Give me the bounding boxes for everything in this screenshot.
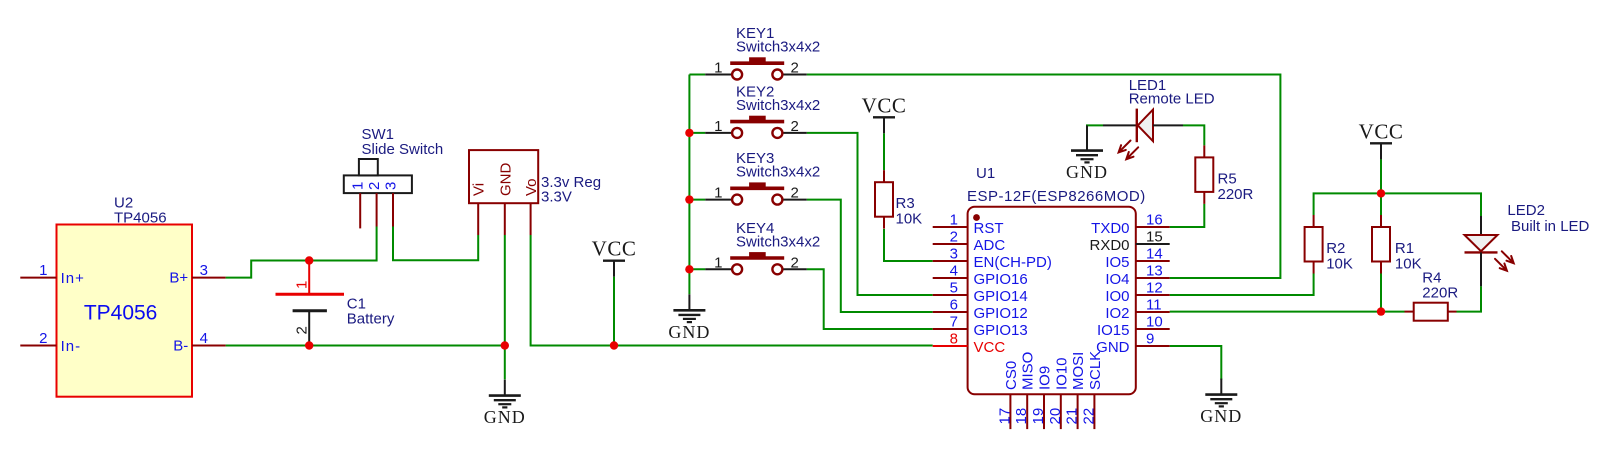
U1 pin 22 SCLK [1080, 351, 1104, 429]
svg-text:VCC: VCC [592, 237, 637, 261]
U2 pin 3 B+ [169, 262, 225, 287]
svg-text:In-: In- [61, 338, 82, 355]
wire keys common left vertical to GND [688, 75, 690, 295]
wire ESP IO2 (pin 11) to R4 left [1170, 311, 1405, 313]
switch KEY2 [705, 83, 820, 137]
svg-text:5: 5 [950, 280, 958, 297]
SW1 label [362, 126, 444, 158]
svg-text:10: 10 [1146, 314, 1163, 331]
svg-text:MISO: MISO [1020, 352, 1037, 390]
resistor R1 10K [1372, 215, 1422, 274]
U1 pin 18 MISO [1013, 352, 1037, 429]
switch KEY3 [705, 150, 820, 205]
wire VCC symbol to junction [1380, 159, 1382, 215]
svg-text:16: 16 [1146, 212, 1163, 229]
svg-text:In+: In+ [61, 270, 85, 287]
svg-text:TXD0: TXD0 [1091, 220, 1129, 237]
svg-text:1: 1 [39, 262, 47, 279]
junction B- ground [501, 341, 509, 349]
wire stub KEY3 pin1 [689, 199, 705, 201]
U2 pin 4 B- [173, 330, 225, 355]
wire R4 right to LED2 cathode [1457, 286, 1482, 311]
svg-text:Slide Switch: Slide Switch [362, 141, 444, 158]
wire KEY3 pin2 to ESP GPIO12 (pin 6) [807, 200, 933, 312]
svg-text:Switch3x4x2: Switch3x4x2 [736, 39, 820, 56]
U1 pin 6 GPIO12 [933, 297, 1028, 323]
svg-text:EN(CH-PD): EN(CH-PD) [974, 254, 1052, 271]
svg-text:1: 1 [714, 60, 722, 77]
svg-text:Vi: Vi [471, 183, 488, 196]
svg-text:Switch3x4x2: Switch3x4x2 [736, 164, 820, 181]
switch KEY4 [705, 220, 820, 274]
LED2 label [1507, 202, 1589, 235]
svg-text:2: 2 [950, 229, 958, 246]
U1 pin 1 RST [933, 212, 1004, 238]
svg-text:IO0: IO0 [1105, 288, 1129, 305]
svg-text:GND: GND [668, 322, 710, 342]
U1 pin 3 EN(CH-PD) [933, 246, 1052, 272]
U1 pin 15 RXD0 [1089, 229, 1169, 255]
svg-text:4: 4 [200, 330, 208, 347]
SW1 pin 2 [366, 182, 383, 227]
svg-text:2: 2 [791, 118, 799, 135]
svg-text:Vo: Vo [523, 178, 540, 196]
svg-text:Switch3x4x2: Switch3x4x2 [736, 233, 820, 250]
regulator pin Vo [523, 178, 540, 235]
wire stub KEY4 pin1 [689, 268, 705, 270]
junction battery bottom [305, 341, 313, 349]
svg-text:CS0: CS0 [1003, 361, 1020, 390]
svg-text:IO5: IO5 [1105, 254, 1129, 271]
wire VCC to R3 top [883, 133, 885, 170]
svg-text:19: 19 [1030, 408, 1047, 425]
svg-text:R3: R3 [896, 195, 915, 212]
svg-text:MOSI: MOSI [1070, 352, 1087, 390]
svg-text:2: 2 [791, 254, 799, 271]
resistor R3 10K [875, 170, 922, 229]
regulator pin GND [497, 163, 514, 236]
junction battery top [305, 256, 313, 264]
U1 pin 4 GPIO16 [933, 263, 1028, 289]
wire regulator GND pin down to ground [504, 235, 506, 379]
svg-text:220R: 220R [1218, 186, 1254, 203]
power flag VCC above R3 [862, 93, 907, 133]
svg-text:1: 1 [714, 254, 722, 271]
U1 pin 16 TXD0 [1091, 212, 1170, 238]
svg-text:Built in LED: Built in LED [1511, 218, 1590, 235]
wire R1 bottom to IO2 net [1380, 274, 1382, 312]
U1 pin 21 MOSI [1064, 352, 1088, 429]
svg-text:LED2: LED2 [1507, 202, 1545, 219]
junction R1 bottom IO2 net [1377, 307, 1385, 315]
LED LED2 Built in LED [1465, 216, 1514, 286]
wire stub KEY2 pin1 [689, 132, 705, 134]
switch SW1 body [344, 159, 412, 193]
LED1 label [1129, 77, 1215, 108]
svg-text:GPIO12: GPIO12 [974, 305, 1028, 322]
svg-text:RST: RST [974, 220, 1004, 237]
svg-text:3: 3 [950, 246, 958, 263]
C1 label [347, 295, 395, 327]
junction VCC right rail [1377, 189, 1385, 197]
ground at ESP pin 9 [1200, 379, 1242, 427]
U1 pin 14 IO5 [1105, 246, 1169, 272]
capacitor C1 battery positive plate [276, 261, 345, 295]
svg-text:4: 4 [950, 263, 958, 280]
svg-text:B+: B+ [169, 270, 188, 287]
svg-text:1: 1 [950, 212, 958, 229]
U1 pin 12 IO0 [1105, 280, 1169, 306]
svg-text:VCC: VCC [1359, 119, 1404, 143]
capacitor C1 battery negative plate [293, 311, 327, 346]
regulator pin Vi [471, 183, 488, 235]
power flag VCC mid rail [592, 237, 637, 277]
U1 pin 19 IO9 [1030, 366, 1054, 429]
wire KEY1 pin2 to ESP IO4 (pin 13) [807, 75, 1281, 279]
svg-text:SCLK: SCLK [1087, 351, 1104, 390]
U1 pin 13 IO4 [1105, 263, 1169, 289]
svg-text:VCC: VCC [862, 93, 907, 117]
U1 pin 2 ADC [933, 229, 1006, 255]
IC U2 TP4056 body [57, 225, 193, 397]
svg-text:1: 1 [714, 185, 722, 202]
svg-text:18: 18 [1013, 408, 1030, 425]
svg-text:20: 20 [1047, 408, 1064, 425]
LED LED1 Remote LED [1103, 109, 1183, 160]
svg-text:10K: 10K [1395, 256, 1422, 273]
svg-text:15: 15 [1146, 229, 1163, 246]
switch KEY1 [705, 25, 820, 80]
junction VCC rail [610, 341, 618, 349]
wire R3 bottom to ESP EN(CH-PD) (pin 3) [884, 229, 933, 261]
resistor R4 220R [1405, 269, 1459, 320]
U2 pin 2 In- [20, 330, 81, 355]
svg-text:VCC: VCC [974, 339, 1006, 356]
svg-text:14: 14 [1146, 246, 1163, 263]
svg-text:10K: 10K [1326, 256, 1353, 273]
svg-text:Switch3x4x2: Switch3x4x2 [736, 97, 820, 114]
svg-text:ADC: ADC [974, 237, 1006, 254]
wire KEY4 pin2 to ESP GPIO13 (pin 7) [807, 269, 933, 329]
SW1 pin 1 [350, 182, 367, 229]
ground at LED1 [1066, 125, 1108, 182]
junction KEY2 pin1 [685, 129, 693, 137]
svg-text:9: 9 [1146, 331, 1154, 348]
U1 pin 17 CS0 [996, 361, 1020, 429]
U1 pin 20 IO10 [1047, 357, 1071, 429]
wire battery junction to SW1 pin 2 [309, 227, 376, 261]
U1 pin 5 GPIO14 [933, 280, 1028, 306]
regulator U3 3.3v body [469, 150, 538, 203]
svg-text:Battery: Battery [347, 310, 395, 327]
svg-text:8: 8 [950, 331, 958, 348]
ground under keys [668, 294, 710, 342]
resistor R5 220R [1195, 145, 1253, 204]
IC U1 ESP-12F body [968, 207, 1136, 394]
svg-text:6: 6 [950, 297, 958, 314]
svg-text:2: 2 [294, 326, 311, 334]
wire stub KEY1 pin1 [689, 74, 705, 76]
svg-text:R1: R1 [1395, 240, 1414, 257]
svg-text:GND: GND [497, 163, 514, 197]
U1 pin 7 GPIO13 [933, 314, 1028, 340]
wire ESP GND (pin 9) to ground [1170, 346, 1222, 380]
svg-text:GPIO16: GPIO16 [974, 271, 1028, 288]
svg-text:2: 2 [366, 182, 383, 190]
svg-text:R5: R5 [1218, 170, 1237, 187]
wire LED1 cathode to GND [1087, 125, 1103, 136]
svg-text:ESP-12F(ESP8266MOD): ESP-12F(ESP8266MOD) [967, 188, 1146, 205]
U1 pin 11 IO2 [1105, 297, 1169, 323]
wire regulator Vo to VCC rail / ESP pin 8 [531, 235, 933, 346]
wire SW1 pin 3 to regulator Vi [393, 227, 478, 261]
U1 pin 10 IO15 [1097, 314, 1170, 340]
svg-text:2: 2 [39, 330, 47, 347]
svg-text:22: 22 [1080, 408, 1097, 425]
U1 pin 9 GND [1096, 331, 1170, 357]
svg-text:3: 3 [200, 262, 208, 279]
svg-text:B-: B- [173, 338, 188, 355]
svg-text:TP4056: TP4056 [114, 209, 167, 226]
ground under regulator [484, 380, 526, 428]
svg-text:GND: GND [1200, 406, 1242, 426]
svg-text:10K: 10K [896, 211, 923, 228]
svg-text:Remote LED: Remote LED [1129, 91, 1215, 108]
svg-text:GND: GND [484, 407, 526, 427]
svg-text:TP4056: TP4056 [84, 302, 158, 325]
svg-text:GPIO14: GPIO14 [974, 288, 1028, 305]
resistor R2 10K [1305, 215, 1353, 274]
U1 label [967, 165, 1146, 205]
svg-text:GND: GND [1066, 162, 1108, 182]
wire B- to ground junction [226, 345, 505, 347]
svg-text:U1: U1 [976, 165, 995, 182]
U2 label [114, 194, 167, 226]
svg-text:220R: 220R [1422, 285, 1458, 302]
junction KEY4 pin1 [685, 265, 693, 273]
svg-text:GPIO13: GPIO13 [974, 322, 1028, 339]
svg-text:3.3V: 3.3V [541, 189, 572, 206]
SW1 pin 3 [382, 182, 399, 227]
svg-text:IO2: IO2 [1105, 305, 1129, 322]
svg-text:IO15: IO15 [1097, 322, 1130, 339]
wire KEY2 pin2 to ESP GPIO14 (pin 5) [807, 133, 933, 295]
svg-text:11: 11 [1146, 297, 1162, 314]
svg-text:R2: R2 [1326, 240, 1345, 257]
U1 pin 8 VCC [933, 331, 1006, 357]
svg-text:3: 3 [382, 182, 399, 190]
svg-text:2: 2 [791, 60, 799, 77]
wire VCC rail to R2/R1/LED2 tops [1314, 193, 1481, 216]
svg-text:1: 1 [714, 118, 722, 135]
svg-text:IO9: IO9 [1037, 366, 1054, 390]
svg-text:7: 7 [950, 314, 958, 331]
wire ESP IO0 (pin 12) to R2 bottom [1170, 274, 1314, 296]
svg-text:IO4: IO4 [1105, 271, 1129, 288]
svg-text:21: 21 [1064, 408, 1081, 425]
wire ESP TXD0 (pin 16) to R5 bottom [1170, 204, 1205, 227]
power flag VCC right [1359, 119, 1404, 159]
svg-text:1: 1 [350, 182, 367, 190]
wire B+ pin3 to battery junction [226, 261, 310, 278]
U2 pin 1 In+ [20, 262, 85, 287]
svg-text:IO10: IO10 [1053, 357, 1070, 390]
svg-text:2: 2 [791, 185, 799, 202]
svg-text:17: 17 [996, 408, 1013, 425]
svg-text:12: 12 [1146, 280, 1163, 297]
wire LED1 anode to R5 top [1183, 125, 1204, 145]
svg-text:RXD0: RXD0 [1089, 237, 1129, 254]
svg-text:1: 1 [294, 281, 311, 289]
regulator label [541, 174, 601, 206]
svg-text:13: 13 [1146, 263, 1163, 280]
junction KEY3 pin1 [685, 195, 693, 203]
wire VCC symbol stub to VCC rail [613, 277, 615, 346]
